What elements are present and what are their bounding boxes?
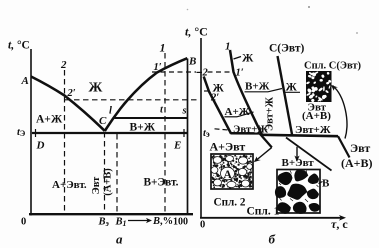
svg-text:а: а [116, 232, 123, 247]
label 1' panel b [236, 68, 244, 79]
label 1' [154, 62, 162, 73]
svg-text:Эвт+Ж: Эвт+Ж [265, 96, 276, 131]
label Evt right [350, 141, 370, 155]
panel b origin 0 [200, 220, 205, 231]
svg-text:tЭ: tЭ [17, 127, 26, 138]
eutectic cooling curve C [278, 56, 293, 136]
region label Zh (liquid) panel a [89, 81, 103, 96]
svg-text:В+Ж: В+Ж [130, 122, 156, 134]
svg-text:0: 0 [21, 217, 26, 228]
cooling curve 2 [204, 77, 231, 134]
svg-text:В1: В1 [115, 217, 127, 229]
eutectic composition dashed vertical B2 [104, 132, 106, 213]
label A+Zh with leader [224, 106, 253, 118]
curve 2 start label [202, 68, 209, 79]
panel b axis label t,°C [185, 25, 208, 39]
structure box alloy 1 [275, 170, 321, 214]
svg-text:2′: 2′ [210, 93, 219, 104]
label B+Evt above box 1 [282, 157, 315, 169]
axis label B,% [152, 216, 173, 227]
svg-text:Вэ: Вэ [98, 217, 110, 229]
alloy 2 dashed vertical [64, 70, 66, 213]
caption Spl. 2 [214, 196, 246, 208]
arrow from curve 2 to structure box 2 [254, 147, 272, 162]
svg-text:Эвт: Эвт [350, 141, 370, 155]
svg-text:Спл. 1: Спл. 1 [247, 205, 280, 217]
label Evt under box [308, 102, 327, 114]
axis label B1 [115, 217, 127, 229]
svg-text:В+Эвт: В+Эвт [282, 157, 315, 169]
vertical arrow to structure box 1 [294, 147, 299, 162]
caption Spl. 1 [247, 205, 280, 217]
curve 1 label [225, 41, 231, 53]
label Zh curve 1 [242, 53, 254, 65]
svg-text:Ж: Ж [242, 53, 254, 65]
plateau label Evt+Zh curves 1,C [295, 124, 331, 136]
scan speck [187, 9, 189, 11]
svg-text:(А+В): (А+В) [341, 156, 373, 170]
scan speck [356, 32, 358, 34]
svg-text:2: 2 [60, 59, 67, 71]
liquidus C-B [105, 58, 188, 131]
svg-text:D: D [36, 140, 45, 152]
svg-text:1′: 1′ [236, 68, 244, 79]
label 2 [60, 59, 67, 71]
panel b time axis with arrow [200, 215, 346, 221]
point D label [36, 140, 45, 152]
region label B+Evt [144, 177, 179, 189]
point l label [109, 106, 112, 117]
axis tick at level 2 [197, 71, 203, 73]
svg-text:Спл. 2: Спл. 2 [214, 196, 246, 208]
time axis label tau,s [331, 217, 348, 231]
alloy 1 dashed vertical [164, 53, 166, 213]
svg-text:А+Эвт: А+Эвт [210, 139, 246, 153]
tick to Zh label curve 1 [234, 57, 242, 60]
curve 2 eutectic plateau [231, 132, 260, 135]
eutectic curve label C(Evt) [269, 43, 305, 55]
label 2' panel b [210, 93, 219, 104]
svg-text:tэ: tэ [203, 128, 210, 139]
panel b temperature axis [200, 38, 202, 219]
svg-text:В+Эвт.: В+Эвт. [144, 177, 179, 189]
axis label 100 [173, 217, 188, 228]
point B label [188, 56, 196, 68]
panel a composition axis [29, 213, 193, 215]
region label A+Evt [52, 179, 87, 191]
region label B+Zh [130, 122, 156, 134]
point s label [182, 106, 187, 117]
point A label [21, 75, 29, 87]
tie line l-t-s [115, 117, 188, 119]
cooling curve 1 [230, 50, 262, 135]
label B right of box 1 [319, 178, 331, 190]
panel b caption [269, 232, 276, 247]
svg-text:t, °С: t, °С [185, 25, 208, 39]
svg-text:Эвт+Ж: Эвт+Ж [295, 124, 331, 136]
svg-text:s: s [182, 106, 187, 117]
label B+Zh with underline leader [245, 81, 283, 93]
plateau label Evt+Zh curve 2 [233, 124, 268, 136]
svg-text:2′: 2′ [67, 88, 76, 99]
t_e dashed leader [215, 129, 229, 130]
rotated label Evt [91, 176, 102, 195]
composition axis arrow [128, 218, 152, 223]
svg-text:А+Ж: А+Ж [36, 114, 63, 126]
liquidus A-C [31, 77, 105, 132]
panel a caption [116, 232, 123, 247]
tick at 2' bend [204, 90, 209, 92]
label Spl. C(Evt) [304, 61, 362, 72]
label A+Evt above box 2 [210, 139, 246, 153]
axis label B2 [98, 217, 110, 229]
point E label [173, 140, 181, 152]
svg-text:B: B [188, 56, 196, 68]
scan speck [308, 6, 310, 8]
label (A+B) right [341, 156, 373, 170]
svg-text:t, °C: t, °C [8, 40, 30, 52]
curved arrow to eutectic box [331, 85, 347, 139]
svg-text:С(Эвт): С(Эвт) [269, 43, 305, 55]
svg-text:τ, с: τ, с [331, 217, 348, 231]
svg-text:E: E [173, 140, 181, 152]
label Zh curve C with underline [284, 82, 301, 94]
curve 1 after plateau to structure box 1 [286, 138, 332, 171]
svg-text:Ж: Ж [286, 82, 298, 94]
point t label [160, 105, 164, 116]
svg-text:(А+В): (А+В) [302, 110, 331, 122]
eutectic structure box [306, 71, 332, 103]
svg-text:В+Ж: В+Ж [245, 81, 270, 93]
svg-text:б: б [269, 232, 276, 247]
origin 0 panel a [21, 217, 26, 228]
t_e label panel a [17, 127, 26, 138]
svg-text:l: l [109, 106, 112, 117]
svg-text:В: В [322, 178, 330, 190]
eutectic line D-C-E [32, 129, 188, 137]
point C label [99, 115, 107, 127]
rotated label Evt+Zh between curves [265, 96, 276, 131]
svg-text:Спл. С(Эвт): Спл. С(Эвт) [304, 61, 362, 72]
label Zh on curve 2 [213, 83, 225, 95]
svg-text:Эвт: Эвт [91, 176, 102, 195]
svg-text:А+Ж: А+Ж [225, 106, 250, 118]
dashed temperature line through 2 level [65, 99, 199, 101]
composition dashed vertical B1 [116, 134, 118, 213]
rotated label (A+B) [102, 168, 113, 196]
svg-text:C: C [99, 115, 107, 127]
svg-text:(А+В): (А+В) [102, 168, 113, 196]
svg-text:0: 0 [200, 220, 205, 231]
panel a axis label t,°C [8, 40, 30, 52]
svg-text:100: 100 [173, 217, 188, 228]
svg-text:А: А [224, 169, 233, 181]
structure box alloy 2 [211, 154, 253, 189]
curve C after plateau [338, 136, 350, 157]
label (A+B) under box [302, 110, 331, 122]
svg-text:1: 1 [160, 41, 166, 55]
label 1 [160, 41, 166, 55]
svg-text:A: A [21, 75, 29, 87]
svg-text:А+Эвт.: А+Эвт. [52, 179, 87, 191]
svg-text:Ж: Ж [89, 81, 103, 96]
svg-text:B,%: B,% [152, 216, 173, 227]
label 2' [67, 88, 76, 99]
vertical line B-E (100% B) [187, 59, 189, 215]
curve 2 after plateau [260, 133, 272, 147]
common eutectic plateau curves 1 and C [262, 135, 338, 136]
svg-text:1′: 1′ [154, 62, 162, 73]
dashed temperature line 1' to curve 1 of panel b [152, 71, 233, 73]
t_e label panel b [203, 128, 210, 139]
panel a temperature axis [30, 49, 32, 216]
region label A+Zh [36, 114, 63, 126]
